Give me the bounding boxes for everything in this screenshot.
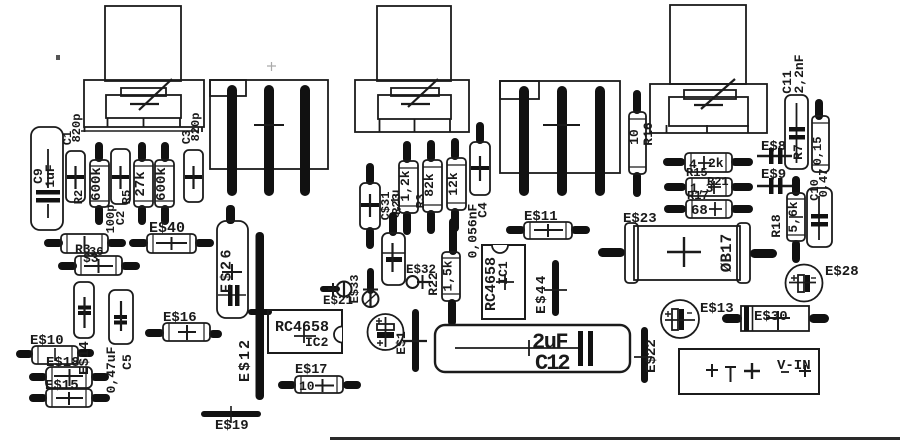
svg-text:R2: R2 bbox=[72, 190, 86, 204]
wire E$22 tick bbox=[634, 356, 652, 358]
diode E$30 bbox=[741, 306, 809, 331]
capacitor C31 leads bbox=[366, 163, 374, 249]
svg-text:68: 68 bbox=[691, 203, 708, 219]
resistor E$10 leads bbox=[16, 349, 94, 358]
svg-text:E$44: E$44 bbox=[534, 274, 550, 314]
svg-text:E$32: E$32 bbox=[406, 263, 436, 277]
svg-text:R15: R15 bbox=[686, 166, 708, 180]
capacitor C12 bbox=[435, 325, 630, 372]
capacitor E$32 bbox=[407, 275, 434, 289]
svg-text:0,47: 0,47 bbox=[817, 169, 831, 198]
svg-text:R5: R5 bbox=[120, 190, 134, 204]
wire E$44 tick bbox=[544, 289, 567, 291]
IC1 pin cross bbox=[496, 274, 514, 290]
resistor R24 bbox=[447, 158, 466, 210]
capacitor E$26 lead bbox=[226, 205, 235, 224]
V-IN pad 1 cross bbox=[706, 364, 718, 377]
svg-text:E$33: E$33 bbox=[348, 275, 362, 304]
V-IN pad 2 cross bbox=[744, 363, 760, 379]
R14 cross bbox=[698, 156, 711, 170]
resistor R14 bbox=[685, 153, 732, 172]
svg-text:R17: R17 bbox=[687, 189, 709, 203]
capacitor E$1 bbox=[368, 314, 404, 350]
svg-text:27k: 27k bbox=[133, 171, 149, 196]
svg-text:600k: 600k bbox=[89, 167, 105, 201]
connector J1 pin 2 bbox=[264, 85, 274, 196]
resistor R16 leads bbox=[633, 90, 641, 197]
connector J2 pin 3 bbox=[595, 86, 605, 196]
capacitor C9 bbox=[31, 127, 63, 230]
C12 center cross tick bbox=[528, 340, 530, 356]
capacitor E$33 bbox=[363, 289, 379, 308]
svg-text:E$28: E$28 bbox=[825, 264, 859, 280]
V-IN pad T bbox=[725, 367, 736, 382]
potentiometer P1 body bbox=[84, 6, 204, 132]
op-amp IC2 RC4658 bbox=[268, 310, 342, 353]
resistor E$40 bbox=[147, 234, 196, 253]
resistor R20 leads bbox=[427, 140, 435, 234]
capacitor C30 lead bbox=[389, 212, 397, 236]
svg-text:E$23: E$23 bbox=[623, 211, 657, 227]
svg-text:R23: R23 bbox=[390, 193, 404, 215]
capacitor C11 bbox=[785, 95, 808, 169]
resistor R13 bbox=[686, 178, 732, 196]
resistor R7 bbox=[812, 116, 829, 172]
capacitor C10 bbox=[807, 188, 832, 247]
scan edge bottom bbox=[330, 437, 900, 440]
resistor E$10 bbox=[32, 346, 78, 364]
capacitor E$23 bbox=[625, 223, 750, 283]
resistor R5 leads bbox=[138, 142, 146, 225]
resistor R12 bbox=[686, 200, 732, 218]
resistor R23 leads bbox=[403, 141, 411, 235]
svg-text:2,2nF: 2,2nF bbox=[792, 54, 807, 93]
capacitor C31 bbox=[360, 183, 380, 229]
wire R22 top lead bbox=[449, 218, 457, 255]
resistor R19 leads bbox=[58, 262, 140, 270]
resistor R24 leads bbox=[451, 138, 459, 232]
capacitor C1 bbox=[66, 151, 85, 202]
svg-text:600k: 600k bbox=[154, 167, 170, 201]
potentiometer P3 wiper arrow bbox=[694, 79, 735, 109]
wire E$19 tick bbox=[230, 406, 232, 423]
svg-text:820p: 820p bbox=[70, 114, 84, 143]
svg-text:RC4658: RC4658 bbox=[275, 319, 329, 336]
capacitor C30 bbox=[382, 233, 405, 285]
terminal block V-IN bbox=[679, 349, 819, 394]
wire E$44 bbox=[552, 260, 559, 316]
svg-text:E$30: E$30 bbox=[754, 309, 788, 325]
resistor R3 bbox=[61, 234, 108, 253]
resistor E$16 bbox=[163, 323, 210, 341]
resistor E$15 leads bbox=[29, 394, 110, 402]
resistor R4 bbox=[155, 160, 174, 207]
resistor E$40 leads bbox=[129, 239, 214, 247]
connector J1 pin 2 tick bbox=[254, 124, 284, 126]
svg-text:0,15: 0,15 bbox=[811, 137, 825, 166]
resistor R5 bbox=[134, 160, 153, 207]
IC2 pin cross bbox=[294, 326, 316, 343]
R12 cross bbox=[709, 202, 722, 216]
wire net top-left bbox=[81, 130, 199, 132]
resistor R22 bottom lead bbox=[448, 299, 456, 326]
svg-text:10: 10 bbox=[627, 129, 642, 145]
svg-text:820p: 820p bbox=[189, 113, 203, 142]
potentiometer P2 body bbox=[355, 6, 469, 132]
svg-text:ØB17: ØB17 bbox=[718, 234, 736, 272]
svg-text:5,6k: 5,6k bbox=[786, 201, 801, 232]
R13 cross bbox=[708, 181, 721, 194]
connector J1 outline bbox=[210, 80, 328, 169]
resistor E$18 bbox=[46, 367, 92, 388]
resistor R14 leads bbox=[663, 158, 753, 166]
wire at E$1 bbox=[412, 309, 419, 372]
capacitor C5 bbox=[109, 290, 133, 344]
connector J2 outline bbox=[500, 81, 620, 173]
svg-text:C2: C2 bbox=[114, 211, 128, 225]
resistor R7 lead bbox=[815, 99, 823, 120]
svg-text:R3: R3 bbox=[414, 194, 428, 208]
svg-text:E$26: E$26 bbox=[219, 247, 236, 293]
svg-text:1,5k: 1,5k bbox=[441, 260, 456, 291]
resistor R2 bbox=[90, 160, 109, 207]
svg-text:E$15: E$15 bbox=[45, 378, 79, 394]
wire E$22 bbox=[641, 327, 648, 383]
diode E$30 leads bbox=[722, 314, 829, 323]
svg-text:R18: R18 bbox=[769, 214, 784, 238]
resistor E$15 bbox=[46, 389, 92, 407]
capacitor C7 bbox=[74, 282, 94, 338]
svg-text:E$19: E$19 bbox=[215, 418, 249, 434]
resistor R20 bbox=[423, 160, 442, 212]
capacitor E$33 lead bbox=[367, 268, 374, 294]
svg-text:0,47uF: 0,47uF bbox=[104, 346, 119, 393]
capacitor C4 lead bbox=[476, 122, 484, 144]
svg-text:1uF: 1uF bbox=[43, 164, 58, 188]
connector J2 pin 2 bbox=[557, 86, 567, 196]
wire E$19 bbox=[201, 411, 261, 417]
svg-text:12k: 12k bbox=[446, 172, 461, 196]
resistor R12 leads bbox=[664, 205, 753, 213]
connector J2 pin 2 tick bbox=[543, 124, 580, 126]
resistor R13 leads bbox=[664, 183, 753, 191]
capacitor C4 bbox=[470, 142, 490, 195]
svg-text:R16: R16 bbox=[641, 122, 656, 146]
capacitor E$21 bbox=[328, 281, 352, 298]
svg-text:C12: C12 bbox=[535, 351, 569, 376]
svg-text:C5: C5 bbox=[120, 354, 135, 370]
svg-text:82k: 82k bbox=[422, 173, 437, 197]
capacitor C3 bbox=[184, 150, 203, 202]
resistor R2 leads bbox=[95, 142, 103, 225]
wire E$12 bbox=[256, 232, 265, 400]
svg-text:R7: R7 bbox=[791, 144, 806, 160]
svg-text:E$1: E$1 bbox=[394, 331, 409, 355]
IC2 pin lead bbox=[248, 309, 272, 315]
resistor R23 bbox=[399, 161, 418, 213]
faint cross mark bbox=[267, 62, 276, 71]
resistor E$11 bbox=[524, 222, 572, 239]
resistor R18 leads bbox=[792, 176, 800, 263]
capacitor E$23 leads bbox=[598, 248, 777, 258]
potentiometer P1 wiper arrow bbox=[130, 79, 172, 110]
resistor R4 leads bbox=[161, 142, 169, 225]
resistor R3 leads bbox=[44, 239, 126, 247]
potentiometer P2 wiper arrow bbox=[401, 79, 438, 107]
svg-text:10: 10 bbox=[299, 379, 315, 394]
svg-text:E$22: E$22 bbox=[644, 339, 660, 373]
connector J1 pin 1 bbox=[227, 85, 237, 196]
capacitor E$26 bbox=[217, 221, 248, 318]
capacitor E$28 bbox=[786, 265, 823, 302]
V-IN pad 3 cross bbox=[799, 365, 811, 377]
capacitor E$8 bbox=[757, 148, 792, 164]
V-IN pad minus bbox=[781, 371, 789, 373]
resistor E$17 bbox=[295, 376, 343, 393]
resistor E$18 leads bbox=[29, 373, 109, 381]
resistor E$11 leads bbox=[506, 226, 590, 234]
wire E$1 to node bbox=[403, 340, 427, 342]
resistor E$16 leads bbox=[145, 329, 222, 338]
speck bbox=[56, 55, 60, 60]
potentiometer P3 body bbox=[650, 5, 767, 133]
svg-text:E$14: E$14 bbox=[77, 341, 93, 375]
svg-text:C4: C4 bbox=[476, 202, 491, 218]
resistor E$17 leads bbox=[278, 381, 361, 389]
svg-text:IC2: IC2 bbox=[305, 335, 329, 350]
capacitor E$21 lead bbox=[320, 286, 340, 292]
resistor R16 bbox=[629, 112, 646, 174]
connector J1 pin 3 bbox=[300, 85, 310, 196]
svg-text:E$18: E$18 bbox=[46, 355, 80, 371]
resistor R18 bbox=[787, 193, 805, 241]
op-amp IC1 RC4658 bbox=[482, 245, 525, 319]
svg-text:E$12: E$12 bbox=[237, 338, 254, 382]
capacitor E$13 bbox=[661, 300, 699, 338]
resistor R22 bbox=[442, 252, 460, 301]
capacitor C2 bbox=[111, 149, 130, 204]
resistor R19 bbox=[75, 256, 122, 275]
connector J2 pin 1 bbox=[519, 86, 529, 196]
capacitor E$9 bbox=[757, 178, 792, 194]
